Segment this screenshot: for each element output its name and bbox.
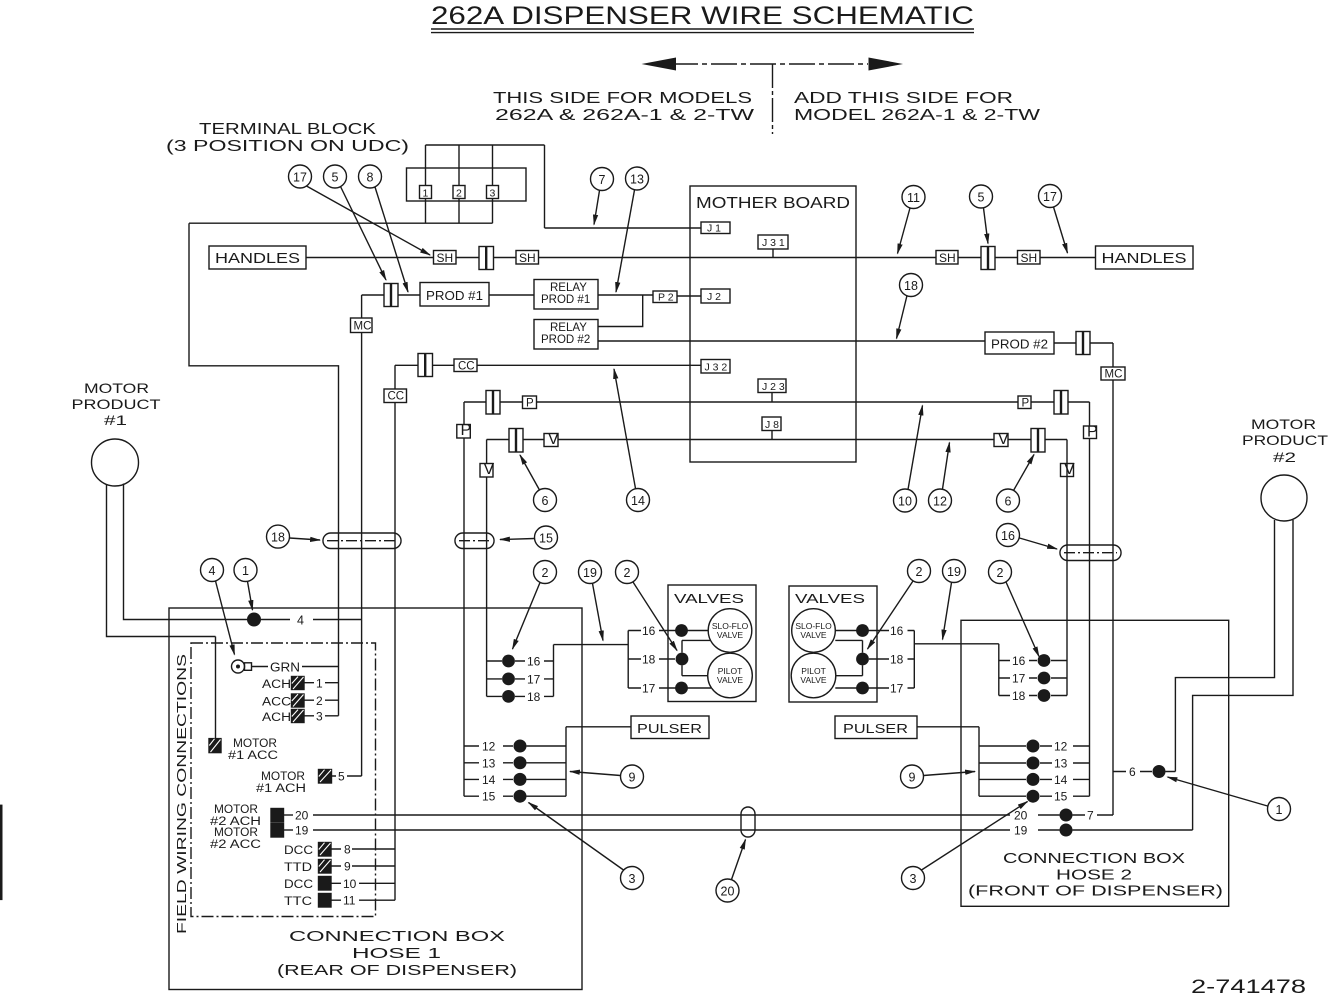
svg-text:TTC: TTC — [284, 896, 312, 908]
MC tag right — [1101, 367, 1125, 380]
PROD #1 box — [420, 283, 489, 307]
bracket rows 12-15 to pulser1 — [566, 727, 631, 796]
row motor1 ACH 5 — [256, 771, 306, 795]
svg-text:CC: CC — [388, 391, 405, 403]
slo-flo valve right — [792, 609, 836, 653]
svg-text:MODEL 262A-1 & 2-TW: MODEL 262A-1 & 2-TW — [794, 107, 1041, 124]
field wiring dash-dot box — [191, 643, 376, 917]
SH tag 4 — [1018, 251, 1041, 265]
svg-text:(3 POSITION ON UDC): (3 POSITION ON UDC) — [166, 138, 409, 155]
row motor2 ACC 19 — [210, 827, 261, 851]
svg-text:2: 2 — [456, 188, 462, 200]
callout 2 b — [616, 561, 678, 651]
wire P row left — [464, 401, 1018, 403]
cable capsule D — [741, 807, 755, 837]
svg-text:PROD #1: PROD #1 — [426, 289, 483, 303]
svg-text:17: 17 — [293, 171, 307, 185]
pulser box right — [835, 716, 917, 739]
title — [431, 2, 974, 30]
callout 4 — [201, 559, 235, 655]
svg-text:15: 15 — [482, 790, 496, 804]
wire 19 long run — [313, 829, 1060, 831]
motor 1 wires — [107, 485, 216, 739]
motor product 1 label — [72, 380, 162, 428]
svg-text:7: 7 — [1087, 809, 1094, 823]
callout 16 right — [997, 524, 1058, 550]
motor 2 wires — [1175, 520, 1274, 772]
row ACH 1 — [262, 679, 291, 691]
V tag right on line — [1061, 464, 1074, 477]
connector J32 — [701, 360, 730, 374]
svg-text:20: 20 — [721, 885, 735, 899]
callout 17 — [289, 165, 431, 255]
svg-text:VALVE: VALVE — [800, 675, 826, 685]
svg-text:MC: MC — [354, 321, 372, 333]
svg-text:262A DISPENSER WIRE SCHEMATIC: 262A DISPENSER WIRE SCHEMATIC — [431, 2, 974, 30]
terminal block label — [166, 121, 409, 155]
wire GRN — [252, 666, 339, 668]
handles box right — [1096, 246, 1194, 269]
svg-text:J 3 1: J 3 1 — [762, 237, 785, 249]
svg-text:16: 16 — [527, 655, 541, 669]
row 20 / 7 at box2 — [1060, 809, 1073, 822]
relay prod 1 box — [534, 280, 598, 310]
row ACH 3 — [262, 712, 291, 724]
wire PROD2 to connector — [1054, 342, 1076, 344]
wire connector to PROD1 — [398, 294, 420, 296]
svg-text:7: 7 — [599, 173, 606, 187]
P tag — [523, 396, 537, 409]
svg-text:CONNECTION BOX: CONNECTION BOX — [289, 929, 506, 945]
svg-text:12: 12 — [933, 495, 947, 509]
svg-text:19: 19 — [583, 566, 597, 580]
svg-text:13: 13 — [630, 173, 644, 187]
svg-text:20: 20 — [1014, 809, 1028, 823]
svg-text:HOSE 1: HOSE 1 — [352, 946, 441, 962]
svg-text:DCC: DCC — [284, 879, 313, 891]
PROD #2 box — [985, 332, 1054, 354]
SH tag 3 — [936, 251, 958, 265]
row motor2 ACH 20 — [210, 804, 261, 828]
valves box left — [668, 585, 756, 702]
svg-text:18: 18 — [271, 531, 285, 545]
svg-text:P: P — [526, 398, 534, 410]
wire terminal row to left border — [189, 222, 493, 224]
svg-text:ADD THIS SIDE FOR: ADD THIS SIDE FOR — [794, 90, 1013, 107]
svg-text:CC: CC — [458, 361, 475, 373]
svg-text:18: 18 — [904, 279, 918, 293]
svg-text:9: 9 — [909, 771, 916, 785]
callout 11 — [898, 186, 926, 254]
svg-text:GRN: GRN — [270, 661, 300, 675]
connector P left — [486, 391, 500, 415]
svg-text:MOTOR: MOTOR — [214, 827, 258, 839]
svg-text:VALVES: VALVES — [674, 591, 744, 606]
terminal 1 — [420, 186, 432, 199]
callout 7 — [591, 168, 614, 225]
connector J31 — [758, 235, 788, 249]
P tag on line — [457, 425, 471, 439]
handles box left — [209, 246, 306, 269]
svg-text:2: 2 — [916, 565, 923, 579]
svg-text:16: 16 — [890, 624, 904, 638]
box2 rows 12-15 — [979, 745, 1090, 747]
box1 rows 16-18 — [487, 660, 554, 662]
P line left down — [463, 402, 465, 796]
connector J23 — [758, 379, 786, 393]
CC tag on line — [384, 389, 407, 403]
svg-text:J 3 2: J 3 2 — [705, 362, 728, 374]
connector V left — [509, 429, 523, 453]
model split labels — [493, 90, 1041, 124]
callout 19 left — [579, 561, 604, 641]
callout 8 — [359, 165, 409, 292]
svg-text:16: 16 — [1001, 529, 1015, 543]
svg-text:13: 13 — [1054, 757, 1068, 771]
mother board — [690, 186, 856, 462]
wire bracket to J1 — [545, 227, 702, 229]
callout 3 right — [902, 802, 1028, 890]
svg-text:VALVES: VALVES — [795, 591, 865, 606]
svg-text:3: 3 — [316, 710, 323, 724]
svg-text:HANDLES: HANDLES — [215, 250, 300, 267]
SH tag 1 — [434, 251, 457, 265]
svg-text:J 8: J 8 — [765, 419, 779, 431]
CC tag right — [454, 359, 477, 372]
P tag right on line — [1084, 426, 1097, 439]
valves2 feed bracket — [877, 630, 914, 632]
svg-text:9: 9 — [629, 771, 636, 785]
svg-text:DCC: DCC — [284, 845, 313, 857]
row ACC 2 — [262, 697, 291, 709]
svg-text:18: 18 — [890, 653, 904, 667]
CC line down — [394, 365, 396, 900]
valves2 wires and dots — [835, 630, 877, 632]
connector P right — [1054, 391, 1068, 415]
svg-text:18: 18 — [527, 690, 541, 704]
svg-text:14: 14 — [631, 494, 645, 508]
svg-text:20: 20 — [295, 809, 309, 823]
svg-text:19: 19 — [295, 824, 309, 838]
svg-text:#1 ACC: #1 ACC — [228, 750, 278, 762]
callout 9 right — [901, 765, 976, 788]
valves box right — [789, 586, 877, 702]
svg-text:6: 6 — [1005, 495, 1012, 509]
svg-text:17: 17 — [1012, 672, 1026, 686]
wire left border down to GRN column — [189, 223, 339, 716]
callout 2 c — [868, 560, 931, 650]
svg-text:MOTOR: MOTOR — [84, 380, 149, 396]
wire handles row — [306, 257, 1096, 259]
terminal motor1 ACC — [209, 739, 221, 753]
svg-text:TTD: TTD — [284, 862, 312, 874]
svg-text:MOTOR: MOTOR — [214, 804, 258, 816]
svg-text:PROD #2: PROD #2 — [991, 338, 1048, 352]
svg-text:MOTHER BOARD: MOTHER BOARD — [696, 195, 850, 212]
connection box 1 — [169, 608, 582, 990]
row DCC 10 — [284, 879, 313, 891]
svg-text:18: 18 — [1012, 689, 1026, 703]
node 4 dot — [247, 613, 261, 627]
svg-text:V: V — [1064, 461, 1075, 478]
connector V right — [1031, 429, 1045, 453]
connector PROD2 — [1076, 332, 1090, 355]
svg-text:J 1: J 1 — [707, 223, 721, 235]
pilot valve left — [708, 653, 753, 698]
svg-text:PULSER: PULSER — [637, 721, 702, 736]
svg-text:V: V — [484, 461, 495, 478]
svg-text:VALVE: VALVE — [800, 630, 826, 640]
wire terminal tops to bracket — [426, 145, 545, 228]
valves1 feed bracket — [627, 631, 629, 689]
svg-text:4: 4 — [297, 614, 304, 628]
connection box 2 — [961, 620, 1229, 906]
svg-text:SH: SH — [437, 251, 454, 265]
wire V row left — [487, 439, 994, 441]
wire jog relay2 to P2 wire — [598, 295, 643, 327]
row DCC 8 — [284, 845, 313, 857]
valves1 wires and dots — [668, 630, 708, 632]
box2 20/19 labels — [1014, 809, 1028, 838]
svg-text:14: 14 — [1054, 773, 1068, 787]
svg-text:5: 5 — [978, 191, 985, 205]
svg-text:3: 3 — [490, 188, 496, 200]
svg-text:#1 ACH: #1 ACH — [256, 783, 306, 795]
V line right down — [1066, 440, 1068, 696]
svg-text:12: 12 — [482, 740, 496, 754]
svg-text:TERMINAL BLOCK: TERMINAL BLOCK — [199, 121, 377, 138]
svg-text:THIS SIDE FOR MODELS: THIS SIDE FOR MODELS — [493, 90, 752, 107]
svg-text:18: 18 — [642, 653, 656, 667]
box2 caption — [968, 851, 1223, 900]
motor 2 circle — [1261, 475, 1307, 521]
svg-text:6: 6 — [542, 494, 549, 508]
V tag on line — [480, 464, 493, 478]
drawing number — [1191, 977, 1306, 998]
svg-text:P: P — [461, 422, 472, 439]
svg-text:16: 16 — [1012, 654, 1026, 668]
callout 17 right — [1039, 185, 1068, 254]
svg-text:V: V — [998, 431, 1009, 448]
svg-text:8: 8 — [344, 843, 351, 857]
callout 19 right — [943, 560, 966, 640]
svg-text:9: 9 — [344, 860, 351, 874]
svg-text:P: P — [1087, 424, 1098, 441]
svg-text:19: 19 — [947, 565, 961, 579]
wire 20 long run — [313, 814, 1060, 816]
svg-text:14: 14 — [482, 773, 496, 787]
svg-text:2: 2 — [542, 566, 549, 580]
callout 1 right — [1168, 777, 1291, 821]
pulser box left — [631, 716, 709, 739]
svg-text:4: 4 — [209, 564, 216, 578]
svg-text:17: 17 — [642, 682, 656, 696]
motor product 2 label — [1242, 416, 1329, 465]
svg-text:MOTOR: MOTOR — [1251, 416, 1316, 432]
row 6 — [1113, 771, 1175, 773]
V line left down — [486, 440, 488, 697]
callout 1 left — [234, 559, 257, 611]
svg-text:6: 6 — [1129, 765, 1136, 779]
svg-text:PROD #2: PROD #2 — [541, 334, 590, 346]
box1 caption — [277, 929, 517, 979]
svg-text:8: 8 — [367, 171, 374, 185]
svg-text:RELAY: RELAY — [550, 282, 587, 294]
connector J8 — [762, 417, 781, 431]
callout 5 — [324, 165, 387, 280]
pilot valve right — [791, 653, 836, 698]
wire CC row — [395, 364, 701, 366]
svg-text:CONNECTION BOX: CONNECTION BOX — [1003, 851, 1185, 867]
field wiring label — [175, 654, 189, 934]
slo-flo valve left — [708, 609, 752, 653]
wire relay2 to PROD2 box — [598, 340, 985, 342]
row TTD 9 — [284, 862, 312, 874]
svg-text:11: 11 — [907, 191, 920, 205]
svg-text:PRODUCT: PRODUCT — [72, 396, 162, 412]
svg-text:J 2: J 2 — [707, 291, 721, 303]
callout 18 right — [897, 274, 923, 339]
svg-text:16: 16 — [642, 624, 656, 638]
callout 13 — [616, 167, 649, 292]
svg-text:2: 2 — [316, 694, 323, 708]
svg-text:1: 1 — [423, 188, 429, 200]
svg-text:P: P — [1022, 398, 1030, 410]
svg-text:ACC: ACC — [262, 697, 291, 709]
MC line right — [1112, 343, 1114, 815]
svg-text:5: 5 — [338, 770, 345, 784]
callout 15 — [500, 526, 558, 549]
wire pulser2 to box2 rows — [917, 727, 979, 796]
svg-text:#1: #1 — [104, 412, 127, 428]
svg-text:SH: SH — [939, 251, 956, 265]
callout 14 — [614, 369, 650, 512]
V row right — [994, 434, 1008, 447]
P line right down — [1089, 402, 1091, 796]
svg-text:13: 13 — [482, 756, 496, 770]
bus wire to box2 — [914, 643, 999, 645]
callout 5 right — [970, 185, 993, 244]
svg-text:#2 ACC: #2 ACC — [210, 839, 261, 851]
svg-text:(REAR OF DISPENSER): (REAR OF DISPENSER) — [277, 963, 517, 979]
callout 2 a — [513, 561, 557, 650]
connector J2 — [701, 289, 730, 303]
wire PROD1 to relay1 — [489, 294, 534, 296]
svg-text:(FRONT OF DISPENSER): (FRONT OF DISPENSER) — [968, 884, 1223, 900]
SH tag 2 — [516, 251, 539, 265]
svg-text:11: 11 — [343, 894, 356, 908]
svg-text:1: 1 — [1276, 803, 1283, 817]
svg-text:SH: SH — [1021, 251, 1038, 265]
edge mark — [0, 805, 3, 901]
svg-text:10: 10 — [343, 877, 357, 891]
svg-text:P 2: P 2 — [658, 292, 674, 304]
cable oval C — [1060, 545, 1121, 561]
P row right — [1018, 396, 1031, 409]
svg-text:17: 17 — [890, 682, 904, 696]
connector SH right — [981, 247, 995, 270]
callout 2 d — [989, 561, 1040, 657]
svg-text:15: 15 — [539, 532, 553, 546]
svg-text:262A & 262A-1 & 2-TW: 262A & 262A-1 & 2-TW — [495, 107, 755, 124]
callout 18 left — [267, 525, 321, 548]
svg-text:MC: MC — [1105, 369, 1123, 381]
svg-text:17: 17 — [1043, 190, 1057, 204]
row TTC 11 — [284, 896, 312, 908]
connector CC — [418, 354, 433, 377]
svg-text:2: 2 — [997, 566, 1004, 580]
MC line left — [361, 295, 363, 776]
callout 9 left — [570, 765, 644, 788]
motor 1 circle — [92, 439, 139, 486]
relay prod 2 box — [534, 320, 598, 350]
callout 6 right — [997, 455, 1035, 513]
svg-text:#2: #2 — [1273, 449, 1296, 465]
svg-text:MOTOR: MOTOR — [261, 771, 305, 783]
svg-text:VALVE: VALVE — [717, 630, 743, 640]
svg-text:VALVE: VALVE — [717, 675, 743, 685]
box1 rows 12-15 — [464, 745, 566, 747]
svg-text:HANDLES: HANDLES — [1102, 250, 1187, 267]
svg-text:1: 1 — [316, 677, 323, 691]
row 19 at box2 — [1060, 824, 1073, 837]
svg-text:V: V — [548, 431, 559, 448]
svg-text:SH: SH — [519, 251, 536, 265]
svg-text:2-741478: 2-741478 — [1191, 977, 1306, 998]
wire relay1 to P2 — [598, 294, 653, 296]
wire terminal bottoms — [426, 199, 493, 224]
terminal GRN ring — [232, 660, 252, 673]
svg-text:3: 3 — [910, 872, 917, 886]
svg-text:HOSE 2: HOSE 2 — [1056, 868, 1132, 884]
callout 12 — [929, 443, 952, 513]
svg-text:J 2 3: J 2 3 — [762, 381, 785, 393]
svg-text:RELAY: RELAY — [550, 322, 587, 334]
title double underline — [431, 29, 974, 33]
bus wire to valves 1 — [554, 644, 629, 646]
svg-text:PROD #1: PROD #1 — [541, 294, 590, 306]
terminal 3 — [487, 186, 499, 199]
svg-text:MOTOR: MOTOR — [233, 738, 277, 750]
callout 6 left — [520, 455, 557, 512]
stub J31 — [772, 249, 774, 258]
svg-text:ACH: ACH — [262, 679, 291, 691]
connector J1 — [701, 222, 730, 234]
svg-text:PRODUCT: PRODUCT — [1242, 432, 1329, 448]
bracket rows 16-18 — [553, 645, 555, 697]
svg-text:ACH: ACH — [262, 712, 291, 724]
svg-text:19: 19 — [1014, 824, 1028, 838]
cable oval B — [455, 533, 494, 549]
wire P2 to J2 — [677, 295, 701, 297]
stub J8 — [771, 431, 773, 440]
svg-text:15: 15 — [1054, 790, 1068, 804]
terminal block — [407, 168, 527, 201]
svg-text:FIELD WIRING CONNECTIONS: FIELD WIRING CONNECTIONS — [175, 654, 189, 934]
svg-text:17: 17 — [527, 672, 541, 686]
svg-text:PULSER: PULSER — [843, 721, 908, 736]
svg-text:1: 1 — [242, 564, 249, 578]
MC tag left — [351, 318, 373, 333]
callout 10 — [894, 406, 923, 513]
svg-text:2: 2 — [624, 566, 631, 580]
callout 20 — [716, 840, 746, 903]
wire MC junction to PROD1 connector — [362, 294, 384, 296]
connector P2 — [653, 291, 677, 303]
connector SH left — [479, 247, 494, 270]
V tag — [544, 434, 558, 447]
terminal 2 — [453, 186, 465, 199]
